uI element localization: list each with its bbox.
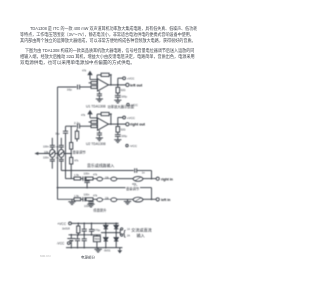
wire: feedback loop U1b <box>97 114 101 122</box>
svg-text:1A: 1A <box>127 228 130 231</box>
wire: +VCC branch stage1 <box>118 78 123 85</box>
bridge diode D4 <box>114 233 118 248</box>
resistor R2 feedback <box>101 73 109 76</box>
svg-text:470μ: 470μ <box>94 228 101 232</box>
capacitor above pot2 <box>59 138 64 150</box>
capacitor series A <box>83 176 86 180</box>
terminal -VCC stage1 <box>127 103 129 105</box>
svg-text:低音提升: 低音提升 <box>93 207 107 212</box>
pot oval A big <box>133 177 143 182</box>
pot oval B big <box>133 197 143 202</box>
svg-text:1.5k: 1.5k <box>74 173 80 177</box>
svg-text:47k: 47k <box>82 69 87 73</box>
svg-text:10k: 10k <box>105 197 110 200</box>
svg-text:1k018: 1k018 <box>62 226 70 230</box>
op-amp U1a <box>98 79 109 91</box>
resistor R1b (bottom input) <box>91 86 98 89</box>
svg-text:47k: 47k <box>93 173 98 177</box>
wire chain A mid <box>117 178 133 180</box>
terminal -VCC stage2 <box>126 144 128 146</box>
terminal left in <box>156 198 159 201</box>
terminal AC 2 <box>121 234 123 236</box>
svg-text:10μ: 10μ <box>55 132 60 136</box>
terminal left out <box>126 83 129 86</box>
wire over A <box>61 170 134 172</box>
svg-text:+VCC: +VCC <box>57 222 67 226</box>
resistor RB2 <box>86 198 97 201</box>
paragraph text line 5 <box>20 54 195 60</box>
resistor PA <box>77 223 80 234</box>
wire bus3 <box>70 126 72 142</box>
resistor RB1 <box>74 198 83 201</box>
svg-text:+VCC: +VCC <box>127 116 136 120</box>
resistor R5 col4 <box>75 129 78 142</box>
svg-text:right in: right in <box>161 177 173 181</box>
paragraph text line 3 <box>20 38 196 44</box>
svg-text:100n: 100n <box>84 204 90 208</box>
node output U1b <box>110 123 112 125</box>
capacitor PC2 <box>82 235 87 248</box>
svg-text:音量调节: 音量调节 <box>73 149 87 154</box>
ground dropper B <box>87 204 94 207</box>
pot oval B2 <box>111 198 117 202</box>
wire over B <box>58 187 134 189</box>
resistor R1a (top input) <box>89 82 99 85</box>
potentiometer VR1 <box>50 149 56 157</box>
capacitor CL2 <box>115 135 121 140</box>
ground power <box>94 248 101 253</box>
capacitor below pot1 <box>50 157 55 168</box>
capacitor on over wire B <box>135 185 152 199</box>
capacitor PC electrolytic <box>89 223 94 234</box>
paragraph text line 4 <box>25 48 194 54</box>
pot oval A2 <box>111 177 117 181</box>
wire: feedback right leg stage2 <box>109 114 111 124</box>
terminal +VCC stage1 <box>123 77 126 80</box>
svg-text:音乐或线路输入: 音乐或线路输入 <box>87 163 114 168</box>
paragraph text line 6 <box>20 60 135 66</box>
pot oval B1 <box>97 198 103 202</box>
svg-text:600.CN: 600.CN <box>40 254 51 258</box>
wire chain B end <box>143 198 156 200</box>
terminal AC 1 <box>119 229 121 235</box>
svg-text:1.5k: 1.5k <box>74 194 80 198</box>
svg-text:100n: 100n <box>84 192 90 196</box>
regulator box <box>93 235 100 248</box>
wire: +VCC branch stage2 <box>118 118 123 125</box>
svg-text:10k: 10k <box>105 176 110 179</box>
ground stage2 load <box>114 140 121 143</box>
svg-text:-9V01: -9V01 <box>104 248 111 252</box>
ground stage1 load <box>114 100 121 103</box>
resistor R4 feedback <box>101 112 109 115</box>
terminal right in <box>156 177 159 180</box>
resistor col3 upper <box>70 143 73 154</box>
+VCC arrow U2 <box>87 110 97 118</box>
ground chain B left <box>68 199 75 204</box>
op-amp U1b <box>98 118 109 130</box>
pot oval A1 <box>97 177 103 181</box>
capacitor C2 noninv to gnd <box>97 91 102 99</box>
terminal right out <box>126 123 129 126</box>
wire top rail <box>71 222 118 224</box>
+VCC arrow U1 <box>87 71 97 80</box>
svg-text:100μ: 100μ <box>121 95 127 99</box>
terminal +VCC stage2 <box>123 116 126 119</box>
svg-text:-VCC: -VCC <box>129 144 137 148</box>
battery B1 <box>67 235 75 248</box>
ground chain B right <box>124 199 131 204</box>
capacitor on over wire A <box>135 168 152 178</box>
resistor col3 lower <box>70 154 73 179</box>
wire: pot wiper line <box>38 153 72 155</box>
capacitor series on bus2 <box>63 131 68 133</box>
svg-text:音量调节: 音量调节 <box>126 186 140 191</box>
capacitor C1 10u coupling <box>78 85 92 90</box>
capacitor C4 noninv to gnd stage2 <box>97 130 102 138</box>
down arrow -VCC <box>117 248 122 254</box>
wire: input wire stage2 <box>66 125 77 127</box>
svg-text:100n: 100n <box>43 144 49 148</box>
capacitor series B <box>83 197 86 201</box>
paragraph text line 2 <box>20 32 194 38</box>
svg-text:-VCC: -VCC <box>57 241 65 245</box>
svg-text:10μ: 10μ <box>67 87 72 91</box>
label 音量调节 (between chains) <box>126 186 141 191</box>
wire bottom rail <box>66 247 122 249</box>
wire: output stage1 <box>109 84 126 86</box>
wire ac mid <box>101 232 120 234</box>
svg-text:{: { <box>123 228 126 238</box>
wire bus1 <box>57 87 59 200</box>
wire: feedback loop U1a <box>97 75 101 83</box>
potentiometer VR2 <box>59 149 65 157</box>
bridge diode D3 <box>104 233 108 248</box>
node dots pot line <box>51 153 53 155</box>
capacitor PB <box>82 223 87 234</box>
svg-text:2.2μ: 2.2μ <box>74 121 80 125</box>
svg-text:交流或直流: 交流或直流 <box>131 226 151 232</box>
svg-text:输入: 输入 <box>137 232 145 238</box>
wire chain A start <box>66 178 75 180</box>
svg-text:left out: left out <box>130 83 143 87</box>
capacitor CL1 <box>115 95 121 100</box>
svg-text:1n: 1n <box>142 170 145 174</box>
svg-text:100n: 100n <box>43 156 49 160</box>
svg-text:47k: 47k <box>81 113 86 117</box>
bridge diode D2 <box>114 223 118 232</box>
capacitor dropper A <box>84 180 89 188</box>
svg-text:-VCC: -VCC <box>130 103 138 107</box>
svg-text:right out: right out <box>130 123 146 127</box>
svg-text:+VCC: +VCC <box>127 76 134 80</box>
svg-text:U2 TDA1308: U2 TDA1308 <box>86 142 106 146</box>
resistor R3a top input <box>89 121 99 124</box>
capacitor dropper B <box>88 201 93 204</box>
wire: output stage2 <box>109 123 126 125</box>
svg-text:left in: left in <box>161 198 170 202</box>
resistor RL2 load <box>116 124 120 135</box>
wire: feedback right leg <box>109 75 111 85</box>
wire chain A end <box>143 178 156 180</box>
capacitor above pot1 <box>50 138 55 150</box>
svg-text:47k: 47k <box>93 193 98 197</box>
svg-text:U1 TDA1308: U1 TDA1308 <box>86 105 106 109</box>
capacitor below pot2 <box>59 157 64 170</box>
node output U1a <box>110 84 112 86</box>
capacitor C3 10u coupling <box>78 124 92 129</box>
svg-text:电源部分: 电源部分 <box>81 255 95 260</box>
resistor RL1 load <box>116 85 120 96</box>
arrow left end <box>34 152 38 155</box>
bridge diode D1 <box>104 223 108 232</box>
ground C4 <box>96 138 103 141</box>
resistor R3b bottom input <box>91 125 98 128</box>
wire chain B mid <box>117 198 133 200</box>
svg-text:2A: 2A <box>127 234 130 237</box>
svg-text:47k: 47k <box>74 159 79 163</box>
resistor RA2 <box>86 177 97 180</box>
svg-text:100μ: 100μ <box>121 134 127 138</box>
svg-text:7809: 7809 <box>94 238 100 241</box>
node A mid <box>87 180 88 181</box>
capacitor PB2 <box>75 235 80 248</box>
svg-text:32Ω: 32Ω <box>120 88 125 92</box>
resistor RA1 <box>74 177 83 180</box>
paragraph text line 1 <box>30 26 197 32</box>
svg-text:100n: 100n <box>84 172 90 176</box>
svg-text:32Ω: 32Ω <box>120 127 125 131</box>
wire: input wire stage1 <box>58 86 77 88</box>
svg-text:10k: 10k <box>44 150 49 154</box>
wire chain B start <box>58 198 75 200</box>
wire mid rail <box>69 234 102 236</box>
ground C2 <box>96 99 103 102</box>
wire bus2 <box>65 126 67 179</box>
